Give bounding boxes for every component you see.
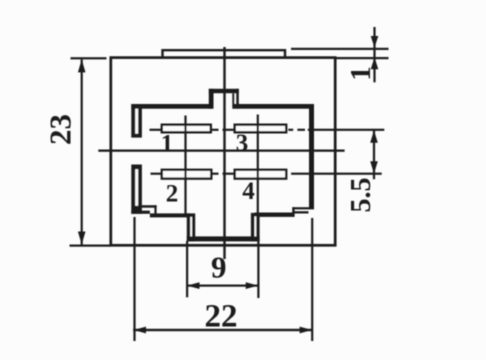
socket outline: top tab right outer line bbox=[236, 89, 239, 109]
dimension 22: right extension line bbox=[311, 218, 313, 341]
socket outline: top tab top bbox=[209, 89, 239, 93]
socket outline: left upper slot bbox=[131, 104, 142, 138]
socket outline: bottom-left hook step bbox=[154, 205, 156, 214]
dimension 9: right extension line bbox=[257, 241, 259, 298]
svg-text:23: 23 bbox=[43, 114, 78, 145]
dimension 1: upper arrowhead bbox=[371, 36, 379, 48]
main vertical centerline bbox=[223, 47, 225, 259]
pin slot 1 bbox=[162, 125, 211, 133]
socket outline: bottom shelf left bbox=[150, 213, 191, 217]
pin slot 3 bbox=[235, 125, 287, 133]
socket outline: top edge left bbox=[131, 104, 211, 109]
svg-text:1: 1 bbox=[345, 66, 377, 81]
socket outline: top edge right bbox=[233, 104, 314, 109]
socket outline: bottom-left hook inner line bbox=[138, 205, 156, 208]
dimension 1: upper extension line (tab top) bbox=[291, 48, 389, 50]
dimension 9: left arrowhead bbox=[187, 282, 200, 289]
pin slot 4 bbox=[235, 170, 287, 179]
dimension 23: top arrowhead bbox=[78, 59, 86, 72]
svg-text:1: 1 bbox=[161, 131, 174, 158]
row1 pin centerline bbox=[150, 129, 385, 131]
dimension 1: dimension line bbox=[373, 27, 375, 82]
socket outline: right edge bbox=[309, 104, 314, 209]
top mounting tab bbox=[163, 50, 286, 58]
dimension 9: right arrowhead bbox=[246, 282, 259, 289]
dimension 23: dimension line bbox=[81, 59, 83, 244]
main horizontal centerline bbox=[98, 150, 344, 152]
dimension 1: lower arrowhead bbox=[371, 57, 379, 69]
row2 pin centerline bbox=[151, 173, 382, 175]
dimension 22: left extension line bbox=[133, 217, 135, 341]
svg-text:3: 3 bbox=[236, 130, 249, 157]
socket outline: bottom shelf right bbox=[255, 213, 295, 217]
svg-text:22: 22 bbox=[205, 299, 238, 335]
pin column centerline left bbox=[184, 116, 186, 215]
svg-text:5.5: 5.5 bbox=[346, 178, 377, 213]
svg-text:9: 9 bbox=[211, 250, 227, 285]
socket outline: bottom-right hook upper line bbox=[292, 207, 309, 209]
socket outline: top tab right inner line bbox=[232, 93, 234, 109]
socket outline: top tab left side bbox=[209, 89, 214, 109]
dimension 5.5: upper arrowhead bbox=[370, 130, 378, 143]
dimension 22: right arrowhead bbox=[300, 327, 312, 334]
dimension 23: top extension line bbox=[71, 57, 107, 59]
dimension 22: dimension line bbox=[133, 329, 312, 331]
dimension 9: left extension line bbox=[186, 241, 188, 297]
socket outline: bottom tab bottom edge bbox=[187, 236, 260, 241]
dimension 5.5: dimension line bbox=[373, 130, 375, 179]
pin slot 2 bbox=[162, 170, 212, 179]
socket outline: bottom-left hook outer line bbox=[131, 211, 150, 214]
dimension 22: left arrowhead bbox=[134, 327, 146, 334]
dimension 23: bottom arrowhead bbox=[78, 232, 86, 245]
outer body square bbox=[111, 58, 335, 246]
svg-text:2: 2 bbox=[166, 181, 179, 208]
socket outline: bottom tab left side bbox=[187, 213, 195, 241]
dimension 1: lower extension line (body top) bbox=[336, 57, 389, 59]
dimension 5.5: lower arrowhead bbox=[370, 161, 378, 174]
dimension 9: dimension line bbox=[187, 285, 258, 287]
socket outline: bottom-right hook step bbox=[292, 207, 294, 217]
dimension 23: bottom extension line bbox=[70, 245, 111, 247]
socket outline: bottom tab right side bbox=[251, 213, 260, 242]
socket outline: left lower slot bbox=[131, 165, 142, 214]
pin column centerline right bbox=[257, 115, 259, 215]
socket outline: bottom-right hook lower line bbox=[292, 211, 308, 213]
svg-text:4: 4 bbox=[242, 178, 255, 205]
